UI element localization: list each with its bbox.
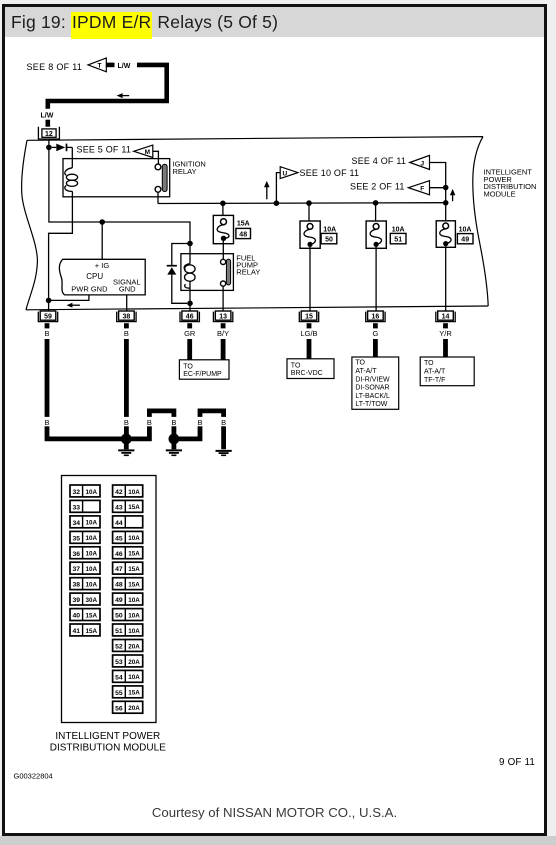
wire LG/B 15 to box	[307, 339, 312, 359]
svg-text:43: 43	[115, 504, 123, 511]
svg-text:SEE 10 OF 11: SEE 10 OF 11	[300, 168, 360, 178]
box TO AT-A/T DI-R/VIEW DI-SONAR LT-BACK/L LT-T/TOW	[352, 357, 399, 409]
wire connector 12 to node	[48, 139, 50, 147]
fuse table cell 53 20A	[113, 655, 143, 667]
svg-text:48: 48	[239, 231, 247, 238]
fuse table cell 40 15A	[70, 609, 100, 621]
svg-text:PWR GND: PWR GND	[71, 284, 108, 293]
junction below connector 12	[46, 145, 52, 151]
svg-text:10A: 10A	[128, 628, 140, 635]
svg-text:TO: TO	[424, 360, 434, 367]
wire ignition contact to bus	[157, 192, 159, 203]
svg-text:49: 49	[115, 597, 123, 604]
svg-text:TO: TO	[291, 363, 301, 370]
label IGNITION RELAY	[173, 160, 206, 176]
wire signal gnd to connector 38	[126, 295, 128, 311]
svg-text:20A: 20A	[128, 705, 140, 712]
fuse table cell 48 15A	[113, 578, 143, 590]
connector arrow J	[410, 155, 430, 169]
svg-text:10A: 10A	[86, 535, 98, 542]
connector 14	[436, 311, 455, 322]
wire GR 46 to box	[187, 339, 192, 360]
fuse table cell 43 15A	[113, 500, 143, 512]
svg-text:TO: TO	[355, 360, 365, 367]
svg-text:B: B	[197, 418, 202, 427]
wire B/Y 13 to box	[221, 339, 226, 360]
fuel pump relay K2 box	[181, 254, 234, 291]
wire 15 stub	[307, 323, 312, 328]
diode D1	[52, 144, 73, 152]
svg-text:20A: 20A	[128, 643, 140, 650]
fuel relay coil	[184, 244, 195, 304]
svg-text:AT-A/T: AT-A/T	[355, 368, 377, 375]
wire stub into connector 12	[45, 120, 50, 127]
wire node12 down and +IG feed	[49, 147, 190, 243]
svg-text:12: 12	[45, 131, 53, 138]
IPDM module outline left wavy edge	[22, 140, 38, 309]
wire bus to fuse 48	[222, 203, 224, 215]
label INTELLIGENT POWER DISTRIBUTION MODULE	[484, 168, 537, 199]
svg-text:15A: 15A	[128, 566, 140, 573]
box TO AT-A/T TF-T/F	[420, 357, 474, 386]
wire 14 stub	[443, 323, 448, 328]
svg-text:38: 38	[73, 582, 81, 589]
svg-text:LT-BACK/L: LT-BACK/L	[355, 393, 390, 400]
svg-text:20A: 20A	[128, 659, 140, 666]
wire fuel contact to connector 13	[222, 286, 224, 311]
ground symbol 1	[118, 443, 134, 455]
ground symbol 3	[216, 451, 232, 455]
svg-text:10A: 10A	[128, 597, 140, 604]
wire bus to fuse 51	[375, 203, 377, 221]
svg-text:50: 50	[325, 237, 333, 244]
wire 13 stub	[221, 323, 226, 328]
junction fuel coil top	[187, 241, 193, 247]
cpu labels	[71, 261, 140, 294]
fuse table cell 51 10A	[113, 624, 143, 636]
IPDM fuse table box	[62, 476, 157, 723]
svg-text:GR: GR	[184, 329, 196, 338]
fuse table cell 49 10A	[113, 593, 143, 605]
connector 16	[366, 311, 385, 322]
svg-text:10A: 10A	[323, 226, 336, 233]
svg-text:44: 44	[115, 520, 123, 527]
wire bus	[158, 202, 446, 205]
label 10A / 49	[457, 227, 473, 244]
svg-text:10A: 10A	[86, 551, 98, 558]
box TO BRC-VDC	[287, 359, 334, 379]
ground symbol 2	[166, 443, 182, 455]
svg-text:BRC-VDC: BRC-VDC	[291, 370, 323, 377]
svg-text:10A: 10A	[128, 612, 140, 619]
svg-text:B: B	[124, 329, 129, 338]
svg-text:B: B	[44, 418, 49, 427]
wire J to fuse 49	[430, 163, 446, 221]
svg-text:36: 36	[73, 551, 81, 558]
svg-text:15A: 15A	[128, 582, 140, 589]
wire Y/R 14 to box	[443, 339, 448, 357]
wire fuel coil to connector 46	[189, 303, 191, 311]
svg-text:B: B	[171, 418, 176, 427]
svg-text:SEE 5 OF 11: SEE 5 OF 11	[77, 145, 132, 155]
label 10A / 50	[321, 226, 337, 243]
svg-text:39: 39	[73, 597, 81, 604]
fuse table cell 34 10A	[70, 516, 100, 528]
svg-text:DI-SONAR: DI-SONAR	[355, 385, 389, 392]
wire ignition coil to ground run	[49, 191, 73, 311]
svg-text:T: T	[98, 63, 102, 70]
connector arrow T	[88, 58, 106, 72]
fuse table cell 44 blank	[113, 516, 143, 528]
fuse table cell 46 15A	[113, 547, 143, 559]
wire fuse 49 to connector 14	[445, 246, 447, 311]
svg-text:G00322804: G00322804	[14, 771, 53, 780]
fuse 51 (10A)	[366, 221, 386, 248]
fuse table cell 50 10A	[113, 609, 143, 621]
ignition relay coil	[65, 168, 78, 192]
connector 59	[38, 311, 57, 322]
svg-text:46: 46	[115, 551, 123, 558]
svg-text:49: 49	[461, 237, 469, 244]
fuse table cell 47 15A	[113, 562, 143, 574]
svg-text:LG/B: LG/B	[300, 329, 317, 338]
svg-text:RELAY: RELAY	[236, 268, 260, 277]
svg-text:41: 41	[73, 628, 81, 635]
wire pwr gnd	[49, 295, 89, 301]
box TO EC-F/PUMP	[179, 360, 229, 379]
wire fuse 48 to fuel relay contact	[222, 241, 224, 259]
svg-text:Y/R: Y/R	[439, 329, 452, 338]
svg-text:M: M	[145, 149, 150, 156]
svg-text:15A: 15A	[128, 690, 140, 697]
svg-text:54: 54	[115, 674, 123, 681]
wire L/W stub right of T	[106, 63, 114, 68]
IPDM module outline right wavy edge	[473, 137, 488, 306]
svg-text:EC-F/PUMP: EC-F/PUMP	[183, 371, 222, 378]
svg-text:9 OF 11: 9 OF 11	[499, 757, 535, 768]
svg-text:40: 40	[73, 613, 81, 620]
wire L/W thick run	[48, 65, 167, 109]
svg-text:RELAY: RELAY	[173, 167, 197, 176]
op: ignition relay U2 box	[63, 159, 170, 197]
fuse 48 (15A)	[213, 215, 233, 243]
svg-text:MODULE: MODULE	[484, 189, 516, 198]
fuse table cell 45 10A	[113, 531, 143, 543]
svg-text:DI-R/VIEW: DI-R/VIEW	[355, 376, 390, 383]
svg-text:10A: 10A	[86, 520, 98, 527]
fuse table cell 56 20A	[113, 701, 143, 713]
junction F	[443, 185, 449, 191]
svg-text:B/Y: B/Y	[217, 329, 229, 338]
wire F to junction	[430, 187, 446, 189]
junction ground 1	[121, 434, 132, 445]
svg-text:16: 16	[372, 314, 380, 321]
connector 15	[299, 311, 318, 322]
wire bridge 2	[174, 411, 224, 449]
arrow left on L/W wire	[117, 93, 130, 98]
junction bus fuse48	[220, 201, 226, 207]
svg-text:53: 53	[115, 659, 123, 666]
svg-text:LT-T/TOW: LT-T/TOW	[355, 401, 387, 408]
label B gaps on ground wires	[42, 417, 229, 427]
junction bus fuse50	[306, 200, 312, 206]
fuse table cell 42 10A	[113, 485, 143, 497]
svg-text:F: F	[420, 185, 424, 192]
svg-text:TO: TO	[183, 364, 193, 371]
svg-text:13: 13	[219, 314, 227, 321]
fuse 50 (10A)	[300, 221, 320, 248]
connector 13	[213, 311, 232, 322]
svg-text:10A: 10A	[86, 489, 98, 496]
wire fuse 51 to connector 16	[375, 247, 377, 311]
wire bus to fuse 50	[308, 203, 310, 221]
wire 46 stub	[187, 323, 192, 328]
svg-text:32: 32	[73, 489, 81, 496]
connector arrow M	[134, 145, 153, 157]
svg-text:35: 35	[73, 535, 81, 542]
svg-text:59: 59	[44, 314, 52, 321]
fuse table cell 55 15A	[113, 686, 143, 698]
label 10A / 51	[390, 226, 406, 243]
svg-text:J: J	[421, 160, 425, 167]
svg-text:15A: 15A	[86, 612, 98, 619]
svg-text:33: 33	[73, 504, 81, 511]
svg-text:52: 52	[115, 644, 123, 651]
svg-text:SEE 8 OF 11: SEE 8 OF 11	[27, 62, 83, 72]
svg-text:DISTRIBUTION MODULE: DISTRIBUTION MODULE	[50, 743, 166, 754]
svg-text:G: G	[372, 329, 378, 338]
arrow up left of U junction	[264, 181, 270, 199]
svg-text:38: 38	[123, 314, 131, 321]
svg-text:42: 42	[115, 489, 123, 496]
svg-text:10A: 10A	[86, 582, 98, 589]
wire B from 59 to ground bus	[45, 339, 127, 439]
svg-text:10A: 10A	[86, 566, 98, 573]
svg-text:14: 14	[442, 314, 450, 321]
svg-text:51: 51	[115, 628, 123, 635]
fuse table cell 33 blank	[70, 500, 100, 512]
IPDM module outline top edge	[27, 137, 483, 141]
wire bridge 1	[126, 411, 174, 439]
fuse table cell 35 10A	[70, 531, 100, 543]
wire 16 stub	[373, 323, 378, 328]
connector 12	[38, 127, 59, 139]
svg-text:34: 34	[73, 520, 81, 527]
svg-text:SEE 2 OF 11: SEE 2 OF 11	[350, 181, 405, 191]
junction fuel coil bottom	[187, 301, 193, 307]
junction pwr gnd	[46, 298, 52, 304]
connector arrow U	[280, 167, 298, 179]
fuse 49 (10A)	[436, 221, 455, 248]
svg-text:48: 48	[115, 582, 123, 589]
svg-text:AT-A/T: AT-A/T	[424, 369, 446, 376]
svg-text:10A: 10A	[128, 674, 140, 681]
wire diode to ignition coil	[71, 147, 73, 167]
svg-text:+ IG: + IG	[95, 261, 110, 270]
connector 38	[117, 311, 136, 322]
svg-text:10A: 10A	[128, 489, 140, 496]
junction bus fuse51	[373, 200, 379, 206]
fuse table cell 32 10A	[70, 485, 100, 497]
svg-text:10A: 10A	[128, 535, 140, 542]
fuse table cell 38 10A	[70, 578, 100, 590]
fuel relay contact	[221, 259, 231, 286]
svg-text:CPU: CPU	[86, 272, 103, 281]
svg-text:47: 47	[115, 566, 123, 573]
label FUEL PUMP RELAY	[236, 254, 260, 277]
svg-text:15A: 15A	[128, 504, 140, 511]
wire fuse 50 to connector 15	[309, 247, 311, 311]
svg-text:37: 37	[73, 566, 81, 573]
cpu U1 box	[59, 259, 145, 295]
svg-text:B: B	[147, 418, 152, 427]
svg-text:B: B	[221, 418, 226, 427]
svg-text:56: 56	[115, 705, 123, 712]
junction ground 2	[169, 434, 180, 445]
junction bus fuse49	[443, 200, 449, 206]
svg-text:45: 45	[115, 535, 123, 542]
arrow up right of fuse49 line	[450, 189, 456, 201]
connector arrow F	[408, 181, 429, 195]
svg-text:SEE 4 OF 11: SEE 4 OF 11	[352, 156, 407, 166]
svg-text:15A: 15A	[86, 628, 98, 635]
svg-text:U: U	[283, 170, 288, 177]
svg-text:55: 55	[115, 690, 123, 697]
svg-text:15A: 15A	[237, 220, 250, 227]
svg-text:51: 51	[394, 237, 402, 244]
diode D2	[167, 244, 190, 304]
svg-text:L/W: L/W	[118, 63, 131, 70]
svg-text:B: B	[124, 418, 129, 427]
svg-text:GND: GND	[119, 284, 136, 293]
svg-text:B: B	[44, 329, 49, 338]
label 15A / 48	[236, 220, 251, 238]
svg-text:15A: 15A	[128, 551, 140, 558]
wire 59 stub	[45, 323, 50, 328]
svg-text:L/W: L/W	[41, 113, 54, 120]
svg-text:INTELLIGENT POWER: INTELLIGENT POWER	[55, 731, 160, 742]
fuse table cell 52 20A	[113, 640, 143, 652]
wire +IG to CPU	[101, 222, 103, 259]
wire 38 stub	[124, 323, 129, 328]
fuse table cell 54 10A	[113, 670, 143, 682]
wire U to bus	[276, 173, 280, 204]
svg-text:46: 46	[186, 314, 194, 321]
svg-text:50: 50	[115, 613, 123, 620]
fuse table cell 39 30A	[70, 593, 100, 605]
IPDM module outline bottom edge	[26, 306, 488, 310]
fuse table caption	[50, 731, 166, 754]
wire B from 38 down	[124, 339, 129, 439]
fuse table cell 36 10A	[70, 547, 100, 559]
svg-text:15: 15	[305, 314, 313, 321]
ignition relay contact	[155, 164, 167, 192]
fuse table cell 41 15A	[70, 624, 100, 636]
svg-text:30A: 30A	[86, 597, 98, 604]
junction +IG	[99, 219, 105, 225]
arrow left under pwr gnd	[67, 303, 80, 308]
svg-text:10A: 10A	[392, 226, 405, 233]
connector 46	[180, 311, 199, 322]
wire G 16 to box	[373, 339, 378, 357]
svg-text:10A: 10A	[459, 227, 472, 234]
svg-text:TF-T/F: TF-T/F	[424, 377, 445, 384]
wire M to ignition relay contact	[153, 151, 159, 164]
fuse table cell 37 10A	[70, 562, 100, 574]
junction bus U-branch	[274, 200, 280, 206]
